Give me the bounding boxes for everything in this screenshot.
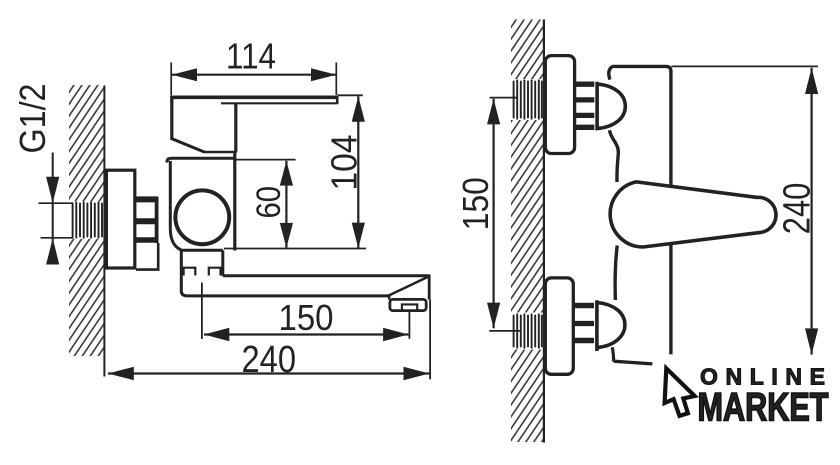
wall face line (right view) [543, 20, 545, 443]
top nut (right view) [575, 84, 595, 127]
dimension 240 (left view, bottom) [108, 300, 430, 381]
threaded inlet pipe (left view) [73, 202, 102, 237]
dimension 150 (right view) [487, 98, 522, 331]
svg-text:150: 150 [455, 177, 496, 230]
spout (left view) [181, 250, 429, 311]
top wall flange (right view) [545, 56, 574, 154]
dimension 60 (left view, middle) [236, 160, 296, 248]
svg-text:114: 114 [226, 36, 276, 77]
svg-text:G1/2: G1/2 [12, 84, 53, 154]
top threaded pipe (right view) [514, 80, 542, 118]
wall (right view, hatched) [511, 20, 545, 443]
bottom nut (right view) [573, 306, 594, 341]
cartridge circle (left view) [175, 190, 229, 244]
spout mounting block (left view) [180, 250, 223, 275]
bottom dome (right view) [597, 300, 625, 351]
svg-text:150: 150 [279, 297, 334, 338]
svg-text:240: 240 [242, 339, 297, 381]
connector nut (left view) [135, 197, 158, 270]
dimension 114 (left view, top) [171, 62, 336, 95]
dimension 240 (right view) [672, 66, 819, 354]
dimension 150 (left view) [202, 283, 410, 342]
wall flange (left view) [106, 170, 134, 268]
bottom threaded pipe (right view) [514, 314, 542, 347]
wall (left view, hatched) [69, 85, 105, 377]
svg-text:MARKET: MARKET [698, 386, 829, 430]
cartridge ring / body column (left view) [167, 152, 235, 251]
top dome (right view) [597, 82, 625, 131]
aerator [390, 299, 426, 310]
svg-text:240: 240 [777, 183, 819, 235]
lever handle (right view) [610, 182, 776, 247]
dimension G1/2 (left view) [39, 153, 74, 265]
wall face line [103, 86, 105, 377]
svg-text:60: 60 [250, 186, 288, 219]
dimension 104 (left view, right side) [224, 95, 366, 248]
svg-text:104: 104 [324, 135, 365, 191]
logo cursor [665, 368, 695, 416]
handle (left view) [170, 96, 338, 153]
bottom wall flange (right view) [545, 278, 573, 374]
faucet body (right view) [609, 66, 671, 364]
